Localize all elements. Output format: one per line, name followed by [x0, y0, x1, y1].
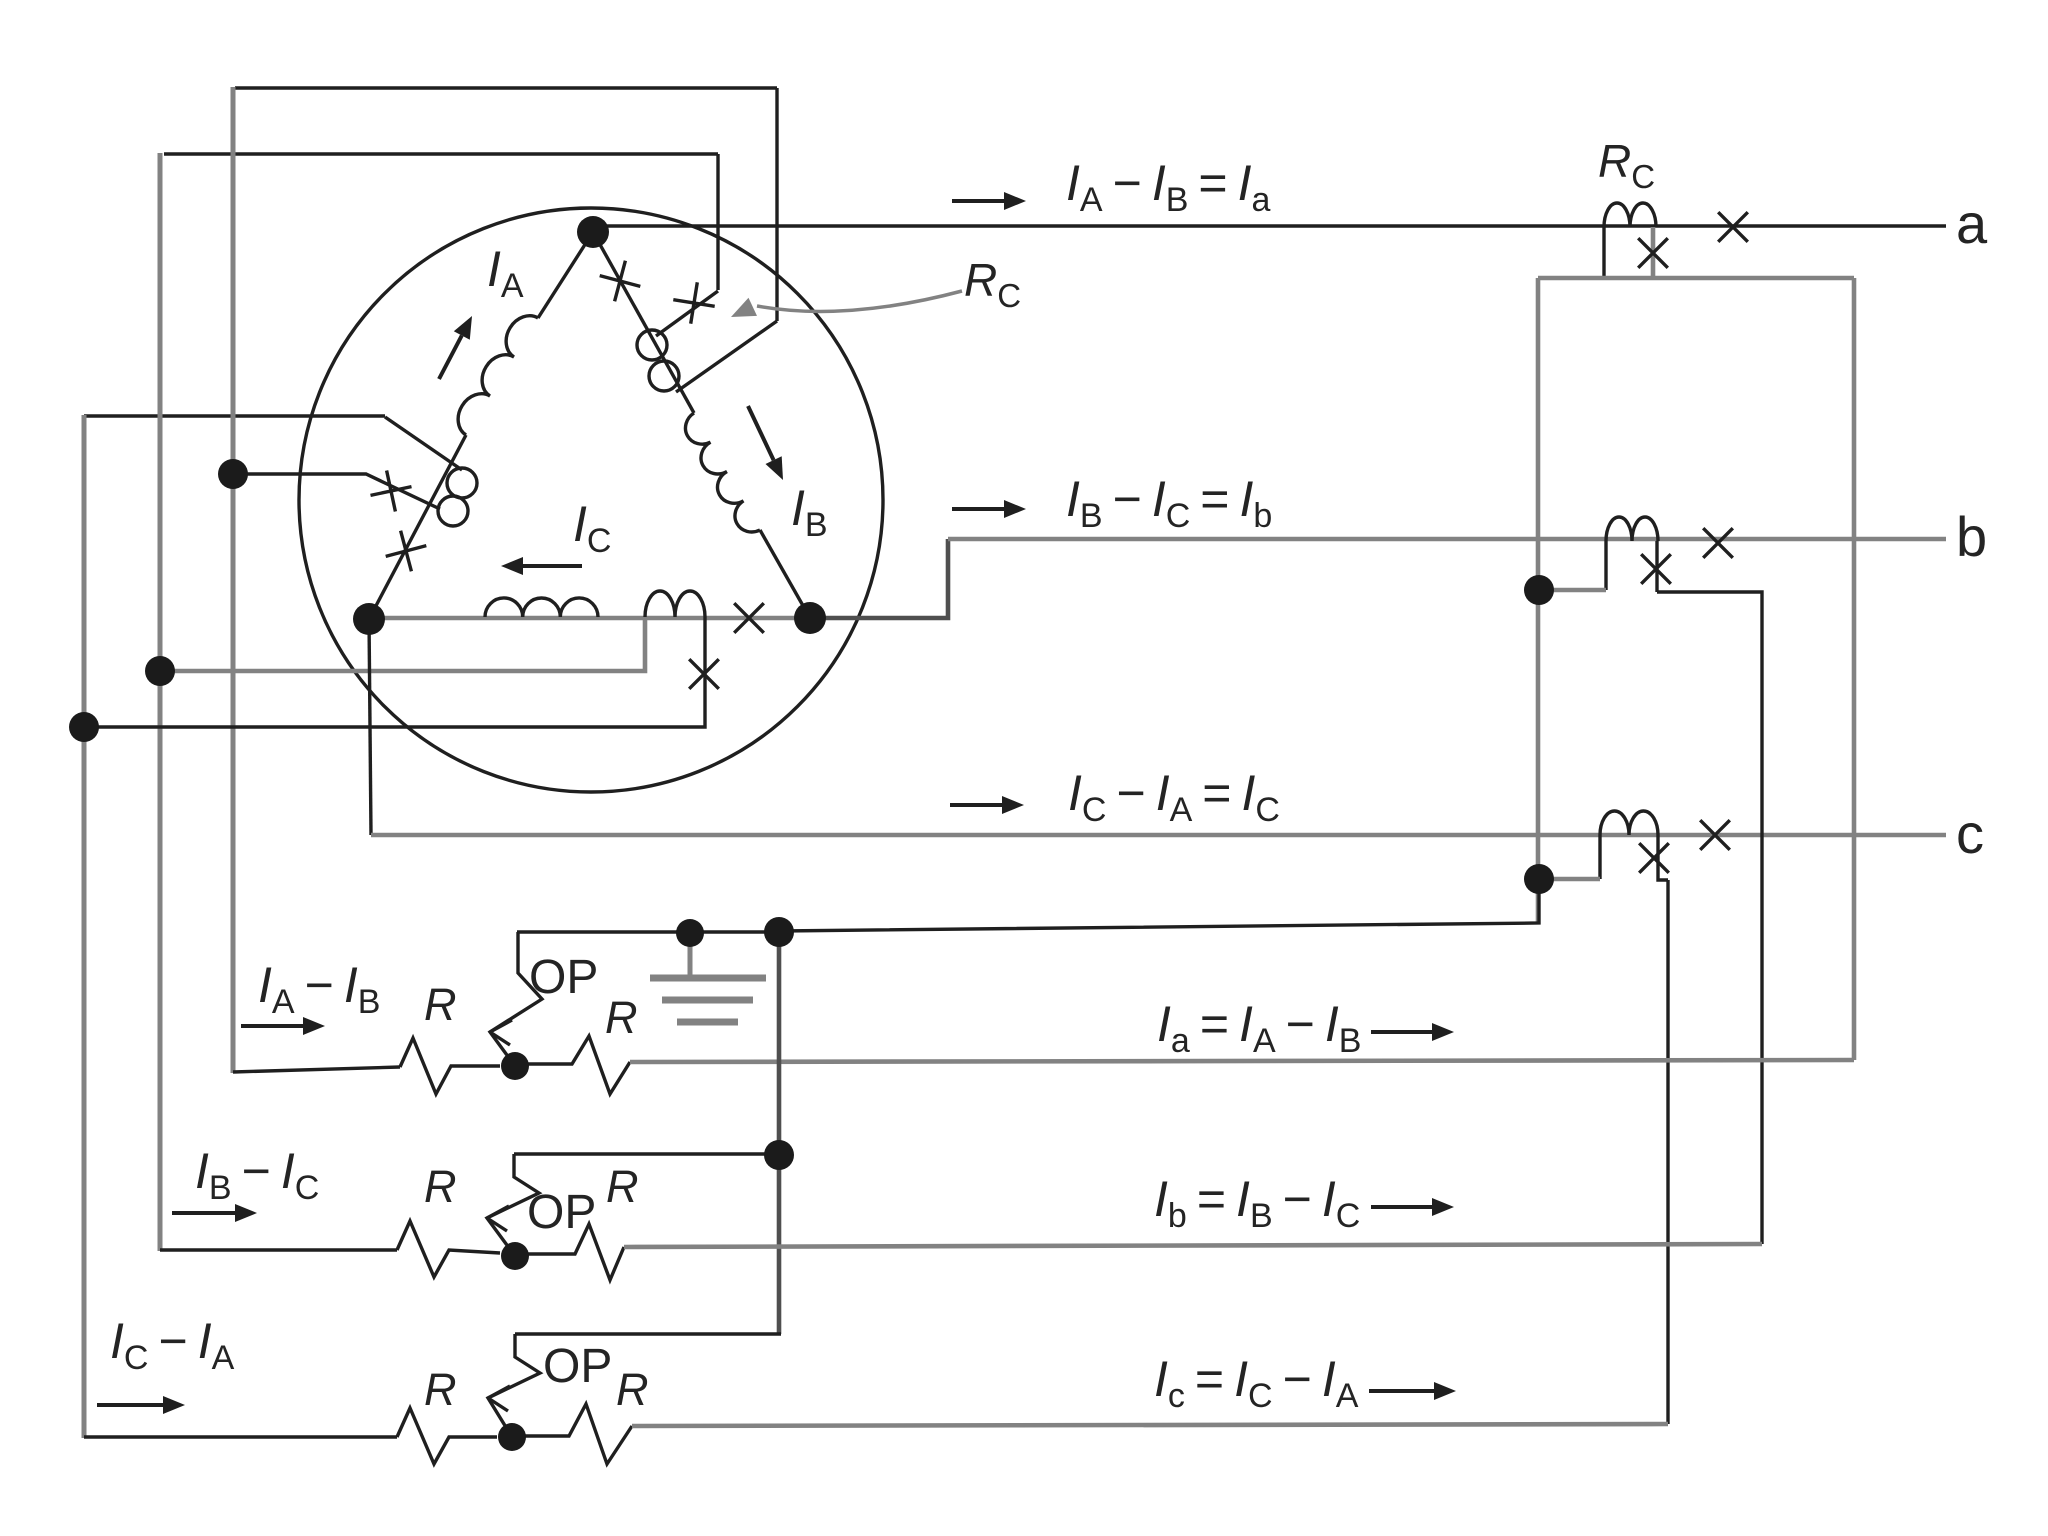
wire from node B to wire b — [810, 539, 948, 618]
CT tap from outer loop to IB CT — [676, 321, 777, 392]
CT tap wire from bus1 junction to IA CT — [233, 474, 440, 509]
junction RC-b lead — [1524, 575, 1554, 605]
link: relay rail to RC-c bus — [779, 879, 1539, 931]
junction rail 2 / neutral bus — [764, 1140, 794, 1170]
relay 1 output wire Ia — [630, 1060, 1854, 1062]
X on RC-b lead — [1641, 554, 1671, 584]
relay neutral bus vertical — [777, 932, 782, 1334]
arrow: relay1 input label — [241, 1024, 303, 1028]
relay 1 input wire IA-IB — [233, 1067, 400, 1072]
resistor R (relay 1 right) — [515, 1036, 630, 1094]
X on wire b — [1703, 528, 1733, 558]
relay 3 input wire IC-IA — [84, 1435, 397, 1438]
junction bus1/IA-CT tap — [218, 459, 248, 489]
svg-text:R: R — [424, 1364, 457, 1415]
resistor R (relay 3 left) — [397, 1408, 497, 1464]
X on RC-a lead — [1638, 238, 1668, 268]
junction OP1/R — [501, 1052, 529, 1080]
junction OP2/R — [501, 1242, 529, 1270]
svg-text:R: R — [616, 1364, 649, 1415]
RC-c left lead link to bus — [1539, 877, 1600, 882]
node B (right vertex) — [794, 602, 826, 634]
node A (top vertex) — [577, 216, 609, 248]
CT RC on wire b — [1606, 517, 1658, 541]
wire: left vertical bus 1 — [231, 87, 236, 1073]
operating coil OP relay 1 — [490, 932, 542, 1066]
wire: left vertical bus 3 — [82, 415, 87, 1438]
relay 2 top rail — [514, 1152, 779, 1155]
svg-text:c: c — [1956, 802, 1984, 865]
wire: left vertical bus 2 — [158, 153, 163, 1251]
ground stub — [688, 934, 693, 976]
CT tap from inner loop to IB CT — [656, 291, 718, 336]
arrow: relay3 input label — [97, 1403, 163, 1407]
arrow: line a equation — [952, 199, 1004, 203]
svg-text:R: R — [605, 992, 638, 1043]
X on IC winding — [734, 603, 764, 633]
RC-b right lead — [1655, 541, 1658, 592]
RC-b left lead link to bus — [1539, 588, 1606, 593]
RC-c left lead — [1598, 835, 1601, 879]
arrow: relay2 input label — [172, 1211, 235, 1215]
svg-text:R: R — [606, 1161, 639, 1212]
svg-text:R: R — [424, 979, 457, 1030]
arrow IC (winding current) — [523, 564, 582, 568]
relay 1 top rail — [517, 930, 779, 933]
CT tap wire from third loop to IA CT — [385, 417, 462, 470]
relay 3 top rail — [515, 1332, 781, 1335]
X on IA CT tap — [371, 471, 412, 512]
RC-b left lead — [1604, 541, 1607, 590]
RC-c return riser to relay 3 output — [1666, 880, 1669, 1424]
CT polarity X on IA winding — [386, 531, 427, 572]
wire: inner loop right side down to IB-winding CT tap — [716, 154, 719, 290]
arrow: Ib output equation — [1371, 1205, 1432, 1209]
svg-text:OP: OP — [527, 1186, 596, 1239]
RC-a right lead — [1651, 227, 1656, 278]
junction bus2/IC-CT lead — [145, 656, 175, 686]
IC CT left lead — [160, 617, 645, 671]
node C (left vertex) — [353, 603, 385, 635]
wire: outer loop top (node A CT lead) — [235, 86, 777, 89]
CT polarity X on IB winding — [600, 261, 641, 302]
RC-c right lead — [1658, 835, 1668, 880]
delta winding IB (right side) — [593, 232, 694, 413]
CT RC on wire c — [1600, 811, 1658, 835]
ground symbol — [650, 978, 766, 1022]
junction bus3/IC-CT lead — [69, 712, 99, 742]
arrow: Ia output equation — [1371, 1030, 1432, 1034]
wire: inner loop top — [164, 152, 718, 155]
wire from node C down to wire c — [369, 618, 371, 835]
CT coil on IC winding — [645, 591, 705, 617]
wire: third loop top to IA-winding CT tap — [84, 414, 385, 417]
X on IC CT right lead — [689, 659, 719, 689]
operating coil OP relay 2 — [487, 1154, 539, 1256]
wire b — [948, 537, 1946, 542]
RC-a secondary loop: top, left, right sides — [1538, 276, 1854, 281]
wire c — [371, 833, 1946, 838]
wire: outer loop right side down to IB-winding CT tap — [775, 88, 778, 321]
RC-a left lead — [1602, 227, 1605, 278]
arrow IA (winding current) — [439, 336, 462, 380]
resistor R (relay 1 left) — [400, 1038, 500, 1094]
arrow IB (winding current) — [748, 406, 774, 460]
relay 2 input wire IB-IC — [160, 1248, 397, 1251]
svg-text:b: b — [1956, 505, 1987, 568]
delta winding IA (left side) — [369, 435, 466, 619]
arrow: Ic output equation — [1369, 1389, 1434, 1393]
CT RC on wire a — [1604, 203, 1656, 227]
svg-text:a: a — [1956, 192, 1988, 255]
junction ground tap — [676, 919, 704, 947]
svg-text:OP: OP — [529, 951, 598, 1004]
junction rail 1 / neutral bus — [764, 917, 794, 947]
motor/transformer circle — [299, 208, 883, 792]
wire a (from node A) — [598, 224, 1946, 227]
relay 2 output wire Ib — [624, 1244, 1762, 1247]
junction RC-c lead — [1524, 864, 1554, 894]
svg-text:R: R — [424, 1161, 457, 1212]
resistor R (relay 2 left) — [397, 1221, 500, 1277]
X on wire c — [1700, 820, 1730, 850]
IC CT right lead — [84, 617, 705, 727]
CT secondary loops on IA winding — [447, 468, 477, 498]
relay 3 output wire Ic — [632, 1424, 1668, 1426]
X on wire a — [1718, 212, 1748, 242]
delta winding IC (bottom) — [369, 616, 810, 621]
arrow: line c equation — [950, 803, 1002, 807]
leader arrow from RC label to IB CT — [757, 291, 962, 311]
operating coil OP relay 3 — [488, 1334, 540, 1437]
junction OP3/R — [498, 1423, 526, 1451]
svg-text:OP: OP — [543, 1340, 612, 1393]
X on IB CT tap — [673, 282, 714, 323]
arrow: line b equation — [952, 507, 1004, 511]
RC-b return riser to relay 2 output — [1657, 592, 1762, 1244]
X on RC-c lead — [1639, 843, 1669, 873]
resistor R (relay 2 right) — [515, 1224, 624, 1280]
resistor R (relay 3 right) — [512, 1404, 632, 1464]
CT secondary loops on IB winding — [637, 330, 667, 360]
